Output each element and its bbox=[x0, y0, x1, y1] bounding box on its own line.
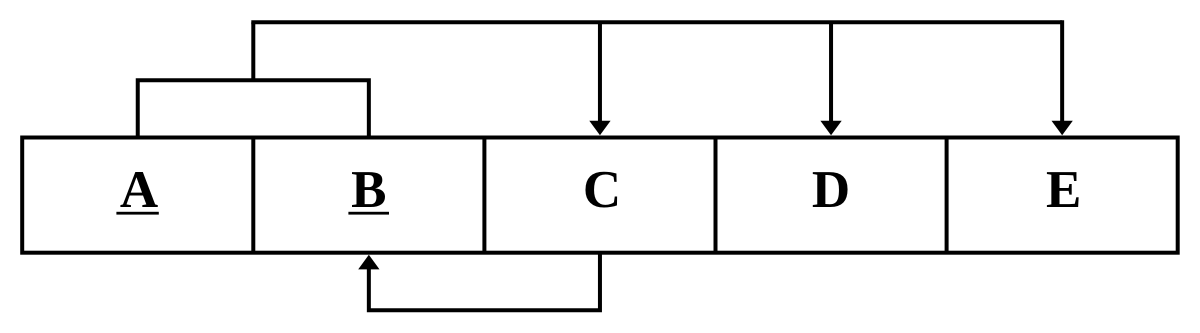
underline of B bbox=[348, 212, 389, 215]
box divider C|D bbox=[714, 138, 718, 253]
feedback wire from bottom of C to bottom of B bbox=[369, 253, 600, 311]
box divider D|E bbox=[945, 138, 949, 253]
wire drop into C bbox=[598, 22, 602, 124]
underline of A bbox=[116, 212, 158, 215]
svg-text:D: D bbox=[812, 161, 850, 219]
label E bbox=[1046, 161, 1081, 219]
arrowhead into top of E bbox=[1052, 121, 1073, 136]
arrowhead into top of D bbox=[820, 121, 841, 136]
box divider A|B bbox=[251, 138, 255, 253]
arrowhead into top of C bbox=[589, 121, 610, 136]
svg-text:A: A bbox=[120, 161, 158, 219]
svg-text:C: C bbox=[583, 161, 621, 219]
box divider B|C bbox=[482, 138, 486, 253]
box row outer rectangle bbox=[22, 138, 1178, 253]
arrowhead into bottom of B bbox=[358, 255, 379, 270]
label D bbox=[812, 161, 850, 219]
svg-text:B: B bbox=[351, 161, 386, 219]
wire drop into D bbox=[829, 22, 833, 124]
svg-text:E: E bbox=[1046, 161, 1081, 219]
wire riser from bracket midpoint up to top bus bbox=[251, 22, 255, 80]
wire drop into E bbox=[1060, 20, 1064, 124]
label B bbox=[351, 161, 386, 219]
wire bracket from top of A to top of B bbox=[138, 80, 369, 137]
label C bbox=[583, 161, 621, 219]
label A bbox=[120, 161, 158, 219]
top bus wire bbox=[251, 20, 1062, 24]
